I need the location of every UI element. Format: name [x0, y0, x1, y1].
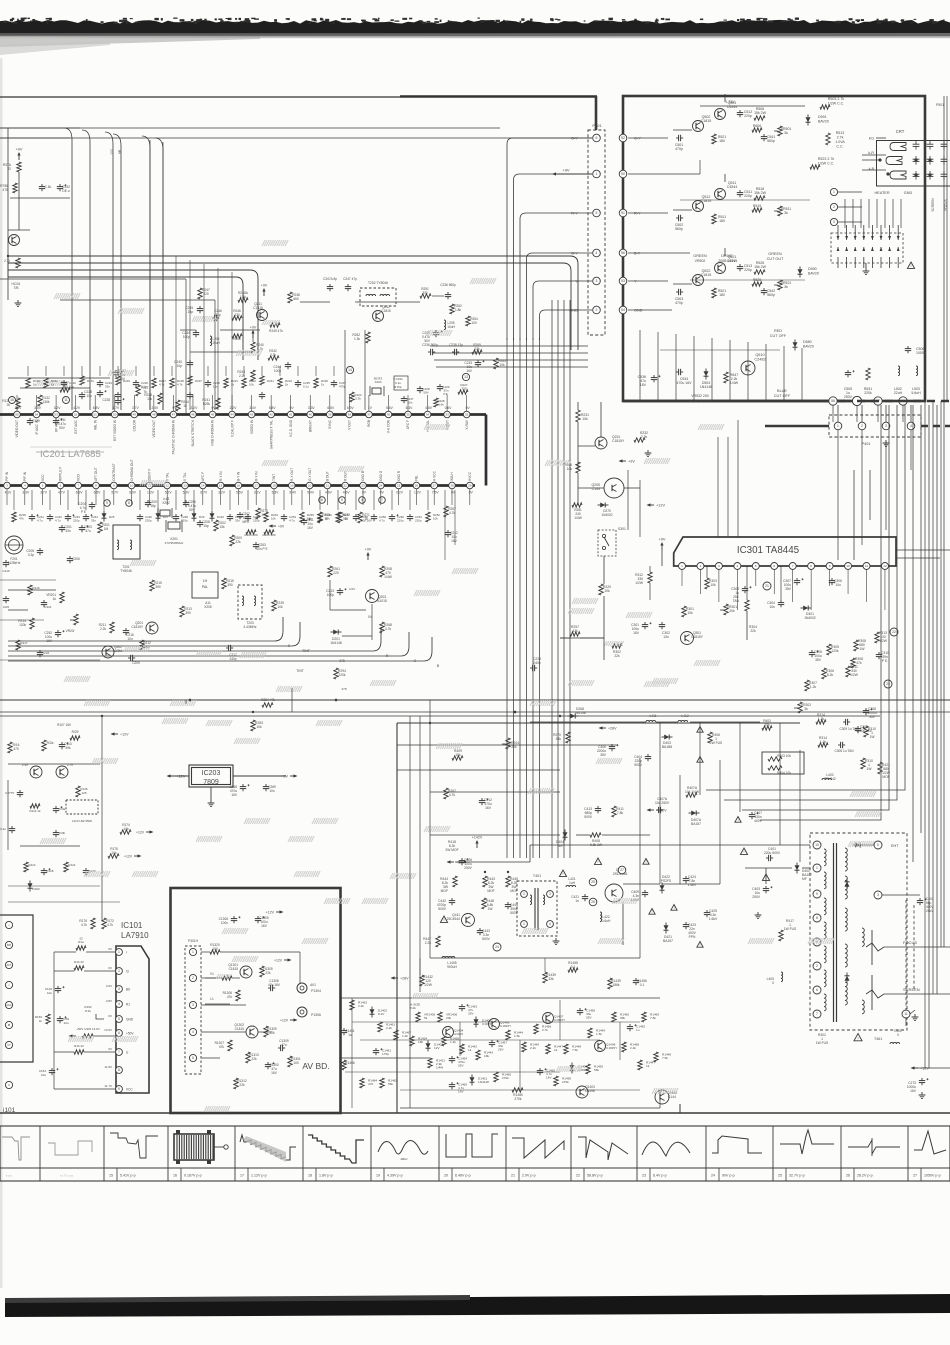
node +9V ic301	[659, 538, 666, 567]
svg-text:10k: 10k	[604, 589, 610, 593]
svg-text:6.46V p-p: 6.46V p-p	[455, 1174, 471, 1178]
svg-text:45: 45	[211, 413, 215, 417]
svg-text:6.7V: 6.7V	[200, 491, 208, 495]
svg-text:44: 44	[230, 413, 234, 417]
wire: IC201 top pin stub	[368, 395, 370, 411]
capacitor C206	[67, 556, 80, 563]
transistor Q1408	[595, 1041, 618, 1052]
connector P201 pin 4	[593, 249, 601, 257]
svg-text:T/B: T/B	[14, 286, 19, 290]
svg-text:PAL: PAL	[202, 585, 209, 589]
node R-Y	[571, 210, 578, 215]
IC201 pin 32 label	[465, 419, 469, 429]
wire seg	[190, 330, 253, 352]
svg-text:1: 1	[816, 866, 818, 870]
svg-text:6.5V: 6.5V	[327, 406, 335, 410]
svg-text:2W FUS: 2W FUS	[710, 741, 723, 745]
connector pin CT	[5, 1041, 12, 1048]
svg-text:R1: R1	[126, 1002, 130, 1006]
warning triangle c404	[697, 757, 703, 763]
capacitor C511	[737, 190, 752, 198]
diode D404	[556, 830, 567, 849]
CRT socket pin 1	[830, 188, 862, 195]
svg-text:10k: 10k	[123, 827, 129, 831]
svg-text:125: 125	[81, 791, 86, 795]
IC201 pin 55	[14, 411, 21, 418]
svg-text:VIDEO OUT: VIDEO OUT	[152, 420, 156, 438]
wire: P401 drop 1	[717, 437, 719, 537]
svg-text:120k: 120k	[831, 649, 839, 653]
svg-text:P201: P201	[592, 123, 602, 128]
svg-text:23: 23	[886, 682, 890, 686]
transistor Q201 C1815Y	[131, 621, 158, 634]
svg-text:3.7V: 3.7V	[132, 406, 140, 410]
capacitor C248	[173, 490, 189, 523]
diode D103	[28, 881, 40, 892]
svg-text:9R: 9R	[118, 149, 122, 154]
capacitor C237	[401, 396, 414, 405]
wire loop C	[8, 270, 258, 360]
flyback primary winding	[824, 970, 826, 987]
resistor R521	[712, 288, 726, 298]
svg-text:VIDEO IN: VIDEO IN	[250, 419, 254, 434]
waveform 13 trace	[2, 1137, 30, 1160]
capacitor C506	[905, 346, 926, 355]
svg-text:46: 46	[191, 413, 195, 417]
resistor R272	[338, 512, 350, 523]
capacitor C237	[331, 366, 347, 389]
wire bottom h3	[360, 1039, 600, 1041]
IC IC301 body	[674, 537, 896, 566]
IC301 pin 1	[679, 563, 686, 570]
wire: loop to P201	[432, 352, 588, 354]
flyback core	[834, 843, 837, 1022]
diode D422 PS2FS	[660, 875, 673, 894]
IC201 pin 43 voltage	[249, 406, 257, 410]
scan artifact: gray stamp	[362, 898, 388, 904]
capacitor C_2775	[5, 790, 23, 797]
svg-text:56: 56	[621, 251, 625, 255]
IC IC201 right edge	[485, 415, 488, 486]
capacitor C268	[229, 784, 249, 797]
wire: right low verticals	[780, 723, 800, 862]
wire: right margin vertical c	[929, 96, 944, 1068]
IC201 pin 32	[463, 411, 470, 418]
resistor R254	[466, 316, 478, 326]
wire loop bottom X	[8, 617, 291, 648]
wire: flyback HV dashed	[906, 900, 914, 1010]
svg-text:1.0VA: 1.0VA	[835, 140, 845, 144]
resistor R503	[820, 97, 844, 109]
wire: x445 drop	[445, 490, 455, 560]
capacitor C1461	[373, 1048, 392, 1056]
transistor Q211 C1815	[253, 302, 267, 321]
svg-text:270k: 270k	[562, 1080, 569, 1084]
svg-text:40: 40	[309, 413, 313, 417]
scan artifact: gray stamp	[262, 460, 288, 466]
T401 pin 1	[521, 921, 528, 928]
wire: bottom frame	[0, 1112, 950, 1114]
IC201 pin 10 label	[130, 459, 134, 481]
wire: left channel vertical	[175, 256, 177, 410]
svg-text:1n: 1n	[575, 899, 579, 903]
svg-text:1: 1	[523, 922, 525, 926]
svg-text:29: 29	[468, 484, 472, 488]
resistor R311	[846, 665, 859, 677]
IC201 pin 14 voltage	[200, 491, 208, 495]
resistor R1434	[410, 1036, 428, 1046]
deflection box	[397, 723, 800, 1113]
wire: left channel vertical	[231, 272, 233, 410]
pin circle 6	[319, 497, 326, 504]
svg-text:0.167V p-p: 0.167V p-p	[184, 1174, 202, 1178]
capacitor C1300	[265, 1062, 279, 1075]
wire: video bus vertical	[513, 338, 515, 858]
svg-text:3.2V: 3.2V	[191, 406, 199, 410]
connector P401 pin 1	[834, 405, 842, 430]
waveform table divider	[234, 1126, 236, 1181]
resistor R241	[202, 398, 220, 409]
svg-text:2.2k: 2.2k	[100, 627, 106, 631]
capacitor C240	[174, 360, 193, 368]
flyback pin 8	[813, 914, 821, 922]
RC network R231	[79, 366, 95, 399]
IC201 pin 27 voltage	[432, 491, 440, 495]
resistor R421	[878, 762, 891, 779]
capacitor C401	[764, 847, 781, 861]
capacitor C1305	[255, 916, 269, 928]
svg-text:1W: 1W	[870, 735, 876, 739]
wire: video bus vertical	[526, 338, 528, 858]
wire: IC201 bottom pin stub	[237, 489, 239, 505]
scan artifact: gray stamp	[162, 718, 188, 724]
capacitor C222	[61, 366, 77, 389]
wire: long rail y712	[0, 711, 950, 713]
capacitor C541	[761, 134, 775, 143]
resistor R246	[232, 309, 242, 320]
svg-text:50V: 50V	[189, 508, 196, 512]
svg-text:1/4W: 1/4W	[436, 1066, 443, 1070]
svg-text:X202: X202	[162, 501, 170, 505]
diode D401 BA157	[795, 863, 813, 882]
resistor R226	[144, 393, 162, 404]
svg-text:4.7u: 4.7u	[55, 519, 61, 523]
wire: IC201 bottom pin stub	[273, 489, 275, 505]
svg-text:1.2V: 1.2V	[414, 491, 422, 495]
svg-text:35V: 35V	[586, 1016, 592, 1020]
jack P1304	[297, 983, 321, 993]
waveform table divider	[167, 1126, 169, 1181]
resistor R1421	[428, 1058, 446, 1070]
svg-text:220p: 220p	[181, 519, 188, 523]
svg-text:10n: 10n	[127, 637, 133, 641]
svg-text:1/2W C.C.: 1/2W C.C.	[818, 162, 835, 166]
AV board label	[302, 1061, 329, 1071]
svg-text:250V: 250V	[844, 395, 853, 399]
IC201 pin 39 voltage	[327, 406, 335, 410]
resistor R444	[440, 876, 457, 893]
diode D268 1N4148	[568, 707, 586, 719]
pin circle fb3	[874, 891, 920, 899]
resistor R1320	[210, 943, 220, 954]
flyback primary winding	[824, 994, 826, 1011]
inductor L412	[678, 714, 689, 722]
svg-text:100n: 100n	[221, 921, 228, 925]
svg-text:PPN: PPN	[689, 935, 696, 939]
svg-text:1.8k: 1.8k	[240, 295, 246, 299]
CRT socket pin 3	[830, 218, 862, 225]
svg-text:4.43MHz: 4.43MHz	[243, 625, 257, 629]
transformer T201 TY8046	[113, 525, 140, 573]
wire: IC201 bottom pin stub	[95, 489, 97, 505]
svg-text:DE.u: DE.u	[62, 189, 69, 193]
svg-text:R523 2.7k: R523 2.7k	[818, 157, 835, 161]
svg-text:0.6V: 0.6V	[445, 406, 453, 410]
waveform table divider	[907, 1126, 909, 1181]
svg-text:2W MOF: 2W MOF	[445, 848, 458, 852]
resistor R113	[24, 862, 36, 872]
IC201 pin 7 label	[76, 474, 80, 481]
svg-text:0: 0	[897, 1033, 899, 1037]
svg-text:C2775: C2775	[5, 791, 14, 795]
IC201 pin 39 label	[328, 419, 332, 429]
svg-text:!: !	[857, 1035, 858, 1040]
svg-text:C1815Y: C1815Y	[131, 625, 143, 629]
svg-text:23: 23	[642, 1174, 646, 1178]
svg-text:ABL IN: ABL IN	[93, 419, 97, 430]
resistor R213	[180, 606, 192, 617]
IC201 pin 54	[33, 411, 40, 418]
waveform 27 label	[913, 1168, 941, 1181]
node +9V into P201	[552, 168, 592, 176]
resistor R313	[875, 631, 888, 643]
resistor R275	[256, 508, 268, 519]
IC IC301 name	[737, 545, 800, 556]
resistor R201	[98, 522, 110, 533]
capacitor C308b	[855, 725, 873, 733]
node +142V mid	[647, 808, 668, 812]
capacitor C129	[27, 418, 40, 425]
transistor Q501	[715, 109, 726, 120]
IC201 pin 10	[128, 482, 135, 489]
svg-text:C2/0: C2/0	[3, 605, 10, 609]
capacitor C246	[212, 309, 222, 321]
IC201 pin 44	[229, 411, 236, 418]
svg-text:390: 390	[227, 583, 233, 587]
svg-text:EHT: EHT	[891, 844, 899, 848]
svg-text:1N4148: 1N4148	[478, 1080, 489, 1084]
IC101 pin 4	[106, 999, 130, 1007]
svg-text:900uH: 900uH	[447, 965, 457, 969]
resistor R511	[712, 214, 726, 224]
capacitor C423	[683, 922, 697, 939]
wire stage	[673, 94, 725, 130]
svg-text:27: 27	[620, 868, 624, 872]
svg-text:15p: 15p	[203, 524, 209, 528]
IC101 pin 1	[108, 947, 127, 955]
svg-text:+12V: +12V	[656, 504, 665, 508]
transistor Q1404	[443, 1027, 464, 1038]
wire av nets	[201, 952, 300, 1058]
svg-text:50: 50	[113, 413, 117, 417]
svg-text:V OUT: V OUT	[348, 420, 352, 430]
connector pin +	[5, 921, 12, 928]
IC101 pin 7	[108, 1047, 129, 1055]
svg-text:3.2V: 3.2V	[218, 491, 226, 495]
svg-text:1000u 35V: 1000u 35V	[856, 729, 872, 733]
capacitor C1456	[633, 978, 647, 987]
inductor L403	[767, 972, 783, 985]
capacitor C254	[281, 490, 297, 523]
svg-text:16V: 16V	[261, 924, 268, 928]
wire: IC201 bottom pin stub	[291, 489, 293, 505]
svg-text:47k: 47k	[19, 517, 24, 521]
wire: video bus vertical b	[551, 300, 553, 858]
scan artifact: gray stamp	[244, 818, 270, 824]
waveform 18 trace	[308, 1135, 364, 1163]
IC201 pin 20 label	[308, 468, 312, 481]
pin circle 7	[379, 497, 386, 504]
svg-text:3: 3	[718, 564, 720, 568]
svg-text:0.1: 0.1	[571, 965, 576, 969]
capacitor C424	[683, 875, 697, 887]
scan artifact: gray stamp	[596, 758, 622, 764]
resistor R217	[16, 640, 28, 650]
flyback primary winding	[824, 922, 826, 939]
svg-text:A1015: A1015	[454, 1032, 463, 1036]
wire: CRT gun return	[852, 199, 854, 228]
warning triangles defl	[643, 859, 703, 948]
svg-text:1/2W: 1/2W	[635, 581, 644, 585]
resistor R406	[708, 732, 723, 745]
svg-text:26: 26	[846, 1174, 850, 1178]
svg-text:3k: 3k	[784, 131, 788, 135]
svg-text:22k: 22k	[251, 1057, 257, 1061]
svg-text:33: 33	[445, 413, 449, 417]
resistor R_left2	[4, 258, 20, 268]
svg-text:4.7k: 4.7k	[385, 627, 392, 631]
capacitor C1454	[449, 1056, 468, 1068]
svg-text:11: 11	[904, 1012, 908, 1016]
svg-text:+12V: +12V	[136, 831, 145, 835]
capacitor C304	[767, 600, 784, 609]
svg-text:BA157: BA157	[663, 939, 673, 943]
IC201 pin 55 label	[15, 420, 19, 438]
resistor R204	[244, 530, 257, 537]
svg-text:15k: 15k	[219, 525, 225, 529]
svg-text:22uH: 22uH	[894, 391, 903, 395]
resistor R402 label	[816, 1033, 829, 1045]
svg-text:C2482: C2482	[754, 358, 765, 362]
connector P1301 pin 4	[189, 1028, 196, 1035]
wire: left rail	[10, 172, 70, 230]
resistor R1467	[394, 1030, 412, 1040]
wire: verticals center	[410, 716, 430, 1108]
svg-text:SYNC: SYNC	[328, 419, 332, 429]
svg-text:1W: 1W	[860, 647, 866, 651]
scan artifact: gray stamp	[530, 700, 556, 706]
svg-text:S301: S301	[618, 527, 626, 531]
svg-text:136k: 136k	[43, 400, 50, 404]
svg-text:240p: 240p	[533, 661, 541, 665]
svg-text:!: !	[911, 264, 912, 268]
wire: IC301 drop	[628, 470, 640, 537]
IC201 pin 9	[111, 482, 118, 489]
scan artifact: gray stamp	[140, 480, 166, 486]
svg-text:+12V: +12V	[266, 911, 275, 915]
net label R-Y	[634, 211, 641, 215]
svg-text:BLUE: BLUE	[777, 389, 787, 393]
resistor R305	[827, 644, 839, 655]
scan artifact: gray stamp	[108, 370, 134, 376]
svg-text:22: 22	[79, 937, 83, 941]
wire: h 300	[60, 300, 215, 410]
svg-text:D1498: D1498	[585, 1089, 595, 1093]
svg-text:22k: 22k	[239, 1083, 245, 1087]
waveform 21 label	[511, 1168, 536, 1181]
svg-text:1.2k: 1.2k	[818, 717, 825, 721]
svg-text:TAN: TAN	[733, 599, 740, 603]
wire bottom h5	[400, 1089, 640, 1091]
waveform 26 trace	[848, 1138, 900, 1156]
wire: IC201 bottom pin stub	[380, 489, 382, 505]
svg-text:47u: 47u	[281, 1043, 287, 1047]
svg-text:BLACK STRETCH: BLACK STRETCH	[191, 419, 195, 446]
svg-text:10u: 10u	[213, 385, 218, 389]
IC201 pin 50 label	[113, 419, 117, 441]
scan artifact: gray stamp	[196, 836, 222, 842]
scan artifact: gray stamp	[262, 240, 288, 246]
connector pin 58	[899, 397, 907, 405]
svg-text:11: 11	[64, 398, 68, 402]
wire from signal loop to P201	[540, 310, 593, 340]
svg-text:AGC: AGC	[6, 1003, 12, 1007]
ground R232	[645, 450, 652, 456]
wire IC203 gnd	[208, 787, 215, 806]
svg-text:0.1u: 0.1u	[303, 385, 309, 389]
IC201 pin 12	[164, 482, 171, 489]
svg-text:!: !	[674, 906, 675, 910]
wire: IC301 pin stub	[755, 570, 757, 586]
svg-text:220p: 220p	[744, 114, 752, 118]
svg-text:4: 4	[192, 1030, 194, 1034]
svg-text:C206: C206	[72, 557, 80, 561]
wire: IC201 top pin stub	[427, 395, 429, 411]
connector P201 pin 1	[593, 170, 601, 178]
svg-text:0.4u: 0.4u	[0, 827, 6, 831]
svg-text:15k 2W: 15k 2W	[754, 111, 767, 115]
resistor R239	[272, 600, 284, 611]
svg-text:10p: 10p	[176, 364, 182, 368]
svg-text:7.8k: 7.8k	[650, 1016, 656, 1020]
IC201 pin 8	[93, 482, 100, 489]
svg-text:1.8V p-p: 1.8V p-p	[319, 1174, 333, 1178]
IC301 pin 3	[715, 563, 722, 570]
net k-B	[862, 167, 886, 171]
svg-text:4.7k: 4.7k	[449, 793, 456, 797]
IC201 pin 42 label	[269, 420, 273, 449]
AV board box	[171, 888, 341, 1113]
warning triangle fb1	[740, 848, 769, 880]
svg-text:BM: BM	[7, 943, 11, 947]
IC201 pin 13	[182, 482, 189, 489]
svg-text:L411: L411	[649, 714, 656, 718]
IC201 pin 23 label	[361, 471, 365, 481]
svg-text:C/22: C/22	[43, 651, 50, 655]
IC201 pin 11 label	[148, 469, 152, 481]
svg-text:!: !	[738, 818, 739, 822]
svg-text:21: 21	[511, 1174, 515, 1178]
